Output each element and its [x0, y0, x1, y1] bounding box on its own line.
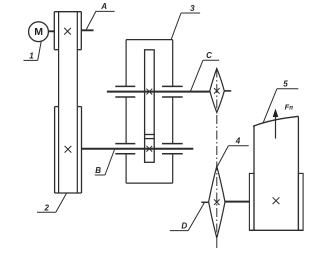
node x-mark pulley P1 center	[64, 28, 71, 35]
bearing support left of drum	[249, 173, 254, 230]
gear G2 (pinion on input shaft)	[145, 139, 155, 163]
node x-mark gear G2	[146, 146, 152, 152]
bevel gear C (small cone pair)	[210, 69, 225, 113]
leader label C	[191, 60, 220, 91]
leader label 2	[37, 193, 67, 212]
svg-text:Fп: Fп	[285, 102, 294, 111]
bearing top shaft left	[115, 86, 135, 97]
belt V-belt lines	[59, 12, 78, 193]
node x-mark bevel C	[214, 88, 220, 94]
svg-text:B: B	[95, 166, 101, 175]
wire gear mesh join lines	[145, 135, 155, 139]
svg-text:3: 3	[190, 4, 195, 13]
svg-text:M: M	[34, 26, 43, 38]
leader label 5	[263, 89, 299, 124]
node x-mark pulley P2 center	[65, 146, 72, 153]
wire stub left of bevel D	[201, 201, 208, 203]
leader label A	[86, 11, 114, 29]
axis vertical center line (dash-dot)	[216, 69, 218, 250]
wire drum shaft	[225, 201, 250, 203]
svg-text:4: 4	[235, 137, 241, 146]
gearbox housing U3	[126, 40, 173, 184]
bearing support right of drum	[298, 173, 303, 230]
bearing bottom shaft left	[115, 144, 135, 154]
leader label 1	[24, 42, 42, 61]
svg-text:5: 5	[283, 80, 288, 89]
pulley P2 (bottom, driven)	[55, 107, 82, 193]
wire shaft C (reducer output)	[107, 91, 210, 93]
leader label B	[95, 150, 115, 176]
wire stub right of bevel C	[224, 90, 231, 92]
leader label D	[170, 203, 205, 231]
bearing bottom shaft right	[162, 144, 183, 154]
node x-mark bevel D	[214, 199, 220, 205]
svg-text:1: 1	[29, 51, 34, 60]
pulley P1 (top, driving)	[54, 12, 81, 50]
leader label 3	[171, 13, 200, 39]
bearing top shaft right	[162, 86, 183, 97]
svg-text:A: A	[100, 2, 107, 11]
svg-text:2: 2	[43, 203, 49, 212]
motor M1 circle	[29, 22, 49, 42]
wire shaft B (input to reducer)	[82, 148, 194, 150]
force arrow Fn	[275, 116, 277, 139]
bevel gear D (large cone pair)	[209, 166, 225, 238]
node x-mark gear G1	[146, 89, 152, 95]
svg-text:C: C	[206, 51, 212, 60]
wire shaft A stub	[81, 29, 93, 31]
svg-text:D: D	[181, 222, 187, 231]
gear G1 (large wheel on output shaft)	[145, 50, 155, 135]
wire motor shaft stub	[48, 30, 54, 32]
leader label 4	[217, 146, 248, 167]
node x-mark drum center	[273, 197, 280, 204]
drum body (5)	[249, 116, 303, 230]
